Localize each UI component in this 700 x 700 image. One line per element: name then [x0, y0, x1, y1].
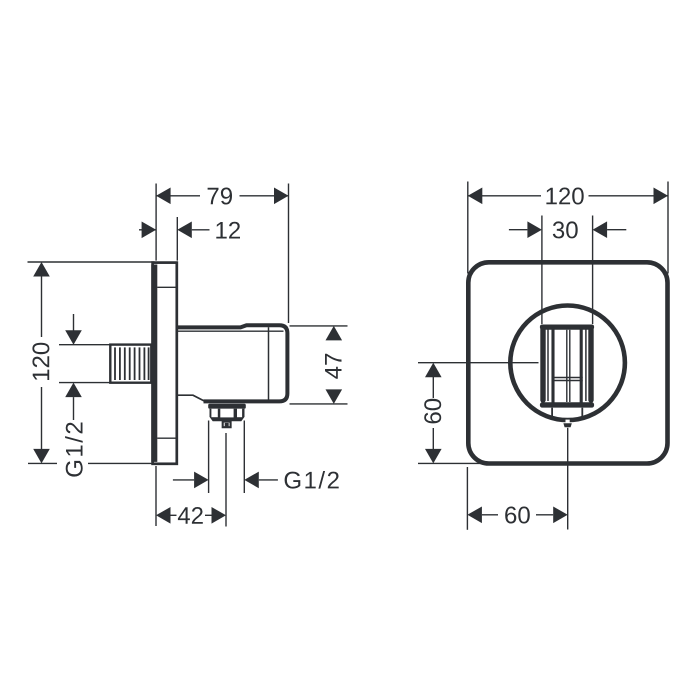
dimension G1/2 (inlet) extension line top — [59, 344, 110, 346]
dimension 47 extension line top — [290, 325, 348, 327]
dimension 120 arrow down — [33, 449, 50, 464]
dimension 42 arrow left — [156, 507, 171, 524]
dimension 12 arrow right (outside pointing left) — [177, 222, 192, 239]
dimension 30 arrow left (outside pointing right) — [509, 229, 528, 231]
wall plate inner step line (top) — [157, 286, 176, 288]
dimension 47 arrow up — [326, 326, 343, 341]
holder bracket right inner wall — [580, 327, 583, 403]
cap joint thin line — [268, 327, 270, 399]
threaded inlet stub G1/2 (hatched) body — [110, 345, 151, 383]
dimension G1/2 (outlet) extension line right — [243, 421, 245, 494]
holder bottom tip white notch — [566, 420, 570, 424]
dimension G1/2 arrow up (below) — [65, 383, 82, 398]
dimension 12 tail line right — [192, 229, 210, 231]
dimension 47 text (rotated) — [325, 354, 342, 379]
dimension 60 (left) arrow down — [425, 449, 442, 464]
dimension 12 tail line left — [139, 229, 156, 231]
dimension 120 arrow left — [468, 188, 483, 205]
dimension 42 extension line left — [155, 466, 157, 526]
dimension 12 arrow left (outside pointing right) — [142, 222, 157, 239]
dimension 120 extension line left — [467, 182, 469, 274]
dimension 120 extension line bottom — [28, 462, 57, 464]
thread hatch lines — [115, 347, 149, 380]
outlet stub center blob — [225, 423, 229, 427]
outlet center line (42/G1-2 extension) — [225, 433, 227, 527]
holder bracket lower cross lines — [552, 377, 583, 379]
dimension G1/2 (inlet) extension line bottom — [59, 382, 110, 384]
holder bracket left rail — [540, 327, 545, 403]
outlet hex nut with windows — [210, 409, 245, 422]
dimension 47 extension line bottom — [290, 403, 348, 405]
holder bracket left thin line — [547, 329, 549, 402]
dimension 120 extension line top — [28, 261, 155, 263]
dimension 79 arrow right — [274, 188, 289, 205]
holder bracket right thin line — [585, 329, 587, 402]
holder collar below bracket — [551, 408, 553, 418]
dimension 60 (bottom) text — [505, 507, 530, 524]
dimension 47 arrow down — [326, 389, 343, 404]
dimension 42 arrow right — [205, 514, 212, 516]
dimension G1/2 (outlet) arrow left (outside pointing right) — [173, 479, 194, 481]
dimension 30 extension line left — [541, 216, 543, 325]
dimension 120 arrow right — [654, 188, 669, 205]
dimension 120 extension line right — [667, 182, 669, 274]
holder bracket left inner wall — [551, 327, 554, 403]
dimension 60 (left) arrow up — [425, 363, 442, 378]
dimension G1/2 arrow down (above) — [73, 314, 75, 331]
holder bracket right rail — [588, 327, 593, 403]
wall plate (escutcheon, side view) outer rectangle — [153, 263, 177, 464]
dimension 60 (left) line — [432, 377, 434, 398]
wall plate inner step line (bottom) — [157, 437, 176, 439]
dimension 30 arrow right (outside pointing left) — [593, 221, 608, 238]
holder center line (bottom 60 extension) — [567, 428, 569, 530]
dimension 79 arrow left — [156, 188, 171, 205]
dimension 60 (left) extension line top — [418, 362, 539, 364]
dimension G1/2 text (rotated) — [65, 423, 83, 477]
dimension G1/2 (outlet) extension line left — [208, 421, 210, 494]
dimension 60 (bottom) arrow right — [536, 514, 553, 516]
dimension 120 text (rotated) — [32, 343, 49, 380]
escutcheon rounded square — [468, 262, 667, 463]
wall plate thick wall-side edge — [151, 265, 157, 462]
outlet nut flange — [208, 404, 246, 409]
dimension 120 line — [41, 276, 43, 338]
holder bracket bottom bar — [540, 402, 594, 407]
dimension 79 extension line right — [288, 184, 290, 324]
dimension 42 text — [178, 507, 203, 524]
outlet stub below nut — [223, 422, 231, 428]
dimension 60 (bottom) extension line left — [466, 467, 468, 530]
dimension 120 text — [546, 188, 583, 205]
dimension 79 line — [156, 195, 200, 197]
holder body outline (top edge, step, end cap, bottom edge) — [177, 325, 287, 401]
dimension 30 extension line right — [592, 216, 594, 325]
holder bottom tip — [563, 423, 571, 427]
dimension G1/2 (outlet) text — [285, 471, 339, 489]
dimension 79 extension line left — [155, 184, 157, 261]
dimension 79 text — [208, 188, 232, 205]
dimension 12 extension line right — [176, 217, 178, 261]
dimension 30 text — [553, 221, 578, 238]
body bottom thin line left — [177, 395, 204, 401]
dimension 120 arrow up — [33, 262, 50, 277]
escutcheon circle — [510, 306, 625, 421]
dimension G1/2 (outlet) arrow right (outside pointing left) — [244, 472, 258, 489]
dimension 60 (left) extension line bottom — [418, 462, 484, 464]
dimension 60 (bottom) arrow left — [467, 507, 482, 524]
dimension 60 (left) text (rotated) — [424, 399, 441, 424]
holder body inner top line — [178, 330, 284, 332]
holder bracket top bar — [540, 325, 594, 330]
dimension 120 line — [468, 195, 541, 197]
holder bracket center split lines — [566, 330, 568, 402]
dimension 12 text — [216, 222, 240, 239]
